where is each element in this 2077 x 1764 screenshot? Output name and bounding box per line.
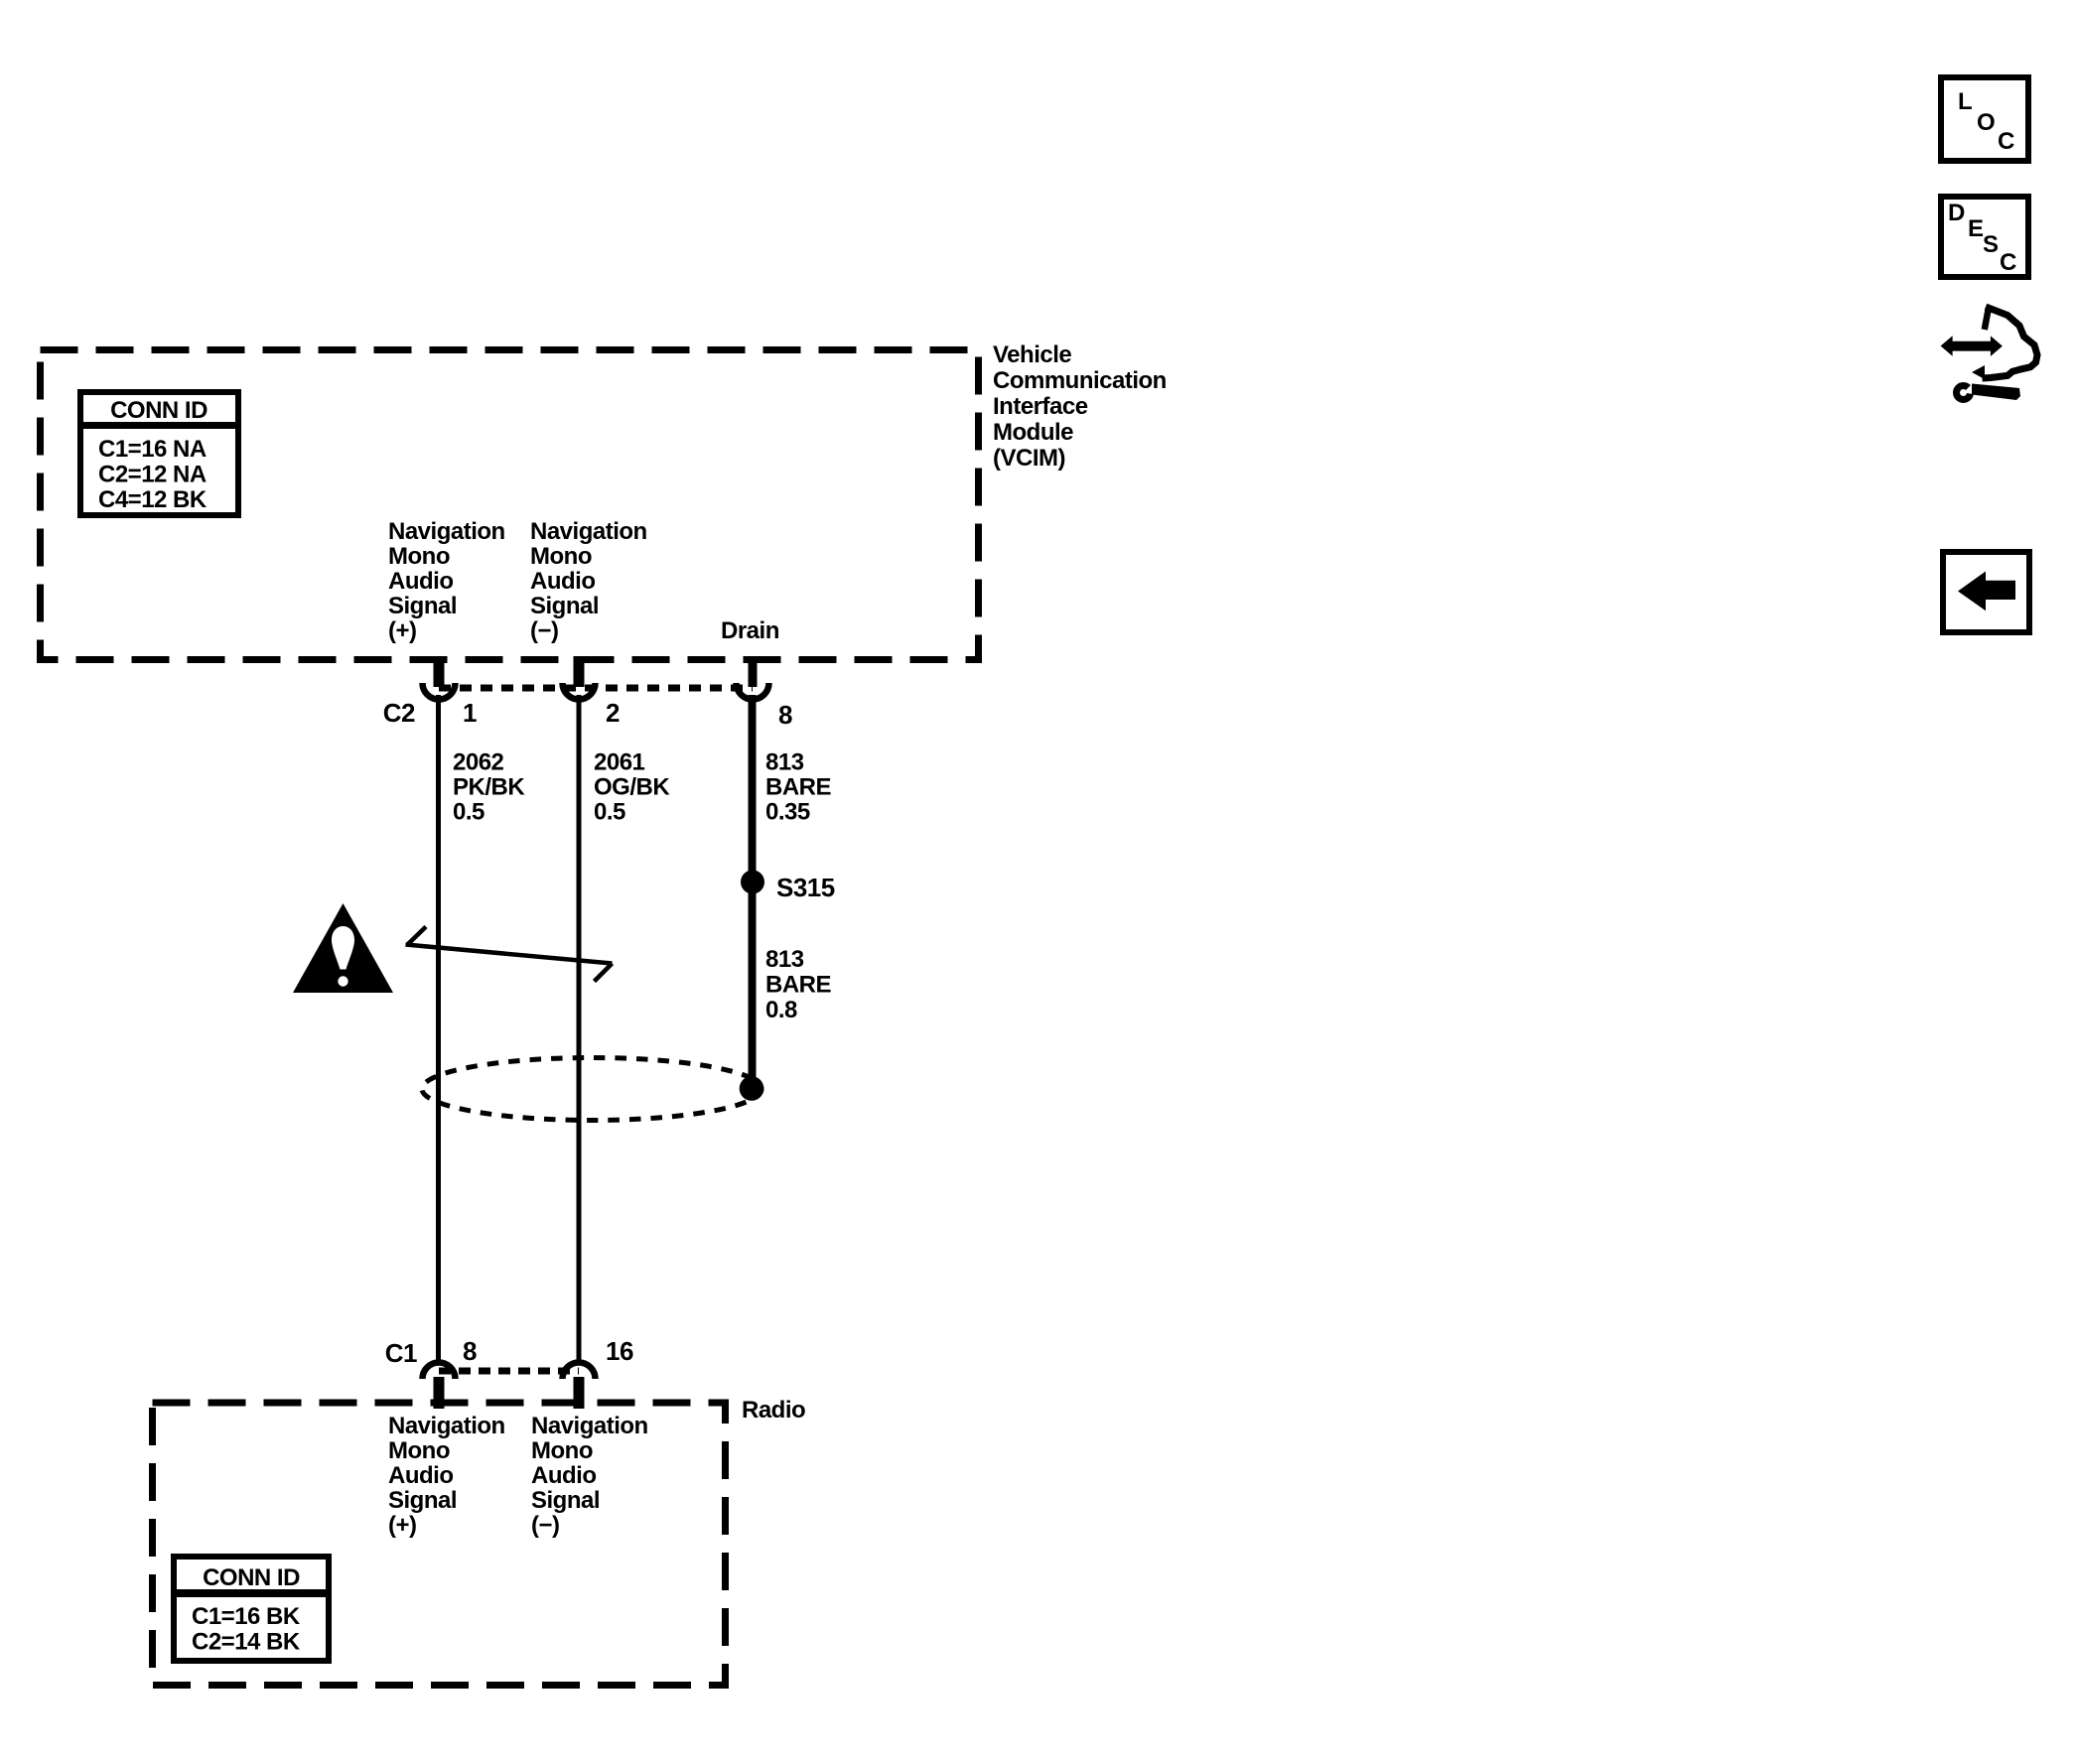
CONN ID table (Radio)	[174, 1557, 329, 1661]
LOC navigation box	[1941, 77, 2028, 161]
svg-text:Audio: Audio	[530, 568, 595, 595]
svg-text:0.35: 0.35	[765, 799, 810, 826]
svg-text:2061: 2061	[594, 749, 645, 776]
svg-text:8: 8	[463, 1336, 477, 1366]
svg-text:C1: C1	[385, 1338, 417, 1368]
loop arrow outline	[1985, 309, 1989, 331]
svg-text:0.5: 0.5	[594, 799, 625, 826]
warning triangle note symbol	[293, 903, 393, 993]
svg-text:O: O	[1977, 109, 1995, 136]
svg-text:Navigation: Navigation	[531, 1413, 648, 1439]
pin label: Navigation Mono Audio Signal (+) (Radio)	[388, 1413, 505, 1539]
svg-text:Interface: Interface	[993, 393, 1088, 420]
svg-text:BARE: BARE	[765, 972, 831, 999]
svg-text:BARE: BARE	[765, 774, 831, 801]
wire 2062 PK/BK 0.5	[436, 695, 441, 1364]
svg-text:PK/BK: PK/BK	[453, 774, 525, 801]
wire label 813 BARE 0.35	[765, 749, 831, 826]
svg-text:E: E	[1968, 215, 1984, 242]
svg-text:Signal: Signal	[531, 1487, 600, 1514]
connector C2 pin 2 stub	[574, 656, 585, 687]
shield junction dot	[740, 1076, 764, 1101]
note pointer arrow	[406, 927, 613, 982]
svg-text:C2=14 BK: C2=14 BK	[192, 1629, 301, 1656]
svg-text:813: 813	[765, 749, 804, 776]
svg-text:Communication: Communication	[993, 367, 1167, 394]
svg-text:0.8: 0.8	[765, 997, 797, 1023]
connector C2 pin 8 stub	[749, 656, 758, 687]
wrench	[1957, 386, 1971, 400]
svg-text:Signal: Signal	[388, 1487, 457, 1514]
svg-text:Audio: Audio	[388, 568, 453, 595]
svg-text:C1=16 BK: C1=16 BK	[192, 1603, 301, 1630]
svg-text:(−): (−)	[530, 617, 559, 644]
DESC navigation box	[1941, 197, 2028, 277]
CONN ID table (VCIM)	[80, 392, 238, 515]
svg-text:Drain: Drain	[721, 617, 779, 644]
svg-text:Mono: Mono	[531, 1437, 593, 1464]
svg-text:S315: S315	[776, 873, 835, 902]
wire 813 BARE 0.35 (drain)	[749, 695, 757, 1089]
svg-text:L: L	[1958, 88, 1972, 115]
svg-text:C2=12 NA: C2=12 NA	[98, 462, 207, 488]
connector C2 pin 1 stub	[434, 656, 445, 687]
svg-text:813: 813	[765, 946, 804, 973]
svg-text:Navigation: Navigation	[530, 518, 647, 545]
connector C1 pin 16 stub	[574, 1377, 585, 1409]
connector C1 pin 8 stub	[434, 1377, 445, 1409]
svg-text:C: C	[2000, 249, 2016, 276]
module box Radio (dashed outline)	[153, 1403, 726, 1686]
svg-text:(VCIM): (VCIM)	[993, 445, 1065, 472]
svg-text:D: D	[1948, 200, 1965, 226]
svg-text:C2: C2	[383, 698, 415, 728]
svg-text:OG/BK: OG/BK	[594, 774, 670, 801]
jump/navigate icon (double arrow, loop arrow, wrench)	[1941, 307, 2037, 400]
connector C2 pin 8 cup	[737, 683, 769, 700]
svg-text:Mono: Mono	[388, 543, 450, 570]
wire label 2061 OG/BK 0.5	[594, 749, 670, 826]
connector C2 pin 2 cup	[563, 683, 596, 700]
svg-text:Mono: Mono	[388, 1437, 450, 1464]
svg-text:Module: Module	[993, 419, 1073, 446]
svg-text:(+): (+)	[388, 1512, 417, 1539]
svg-text:1: 1	[463, 698, 477, 728]
svg-text:Audio: Audio	[388, 1462, 453, 1489]
svg-text:C1=16 NA: C1=16 NA	[98, 436, 207, 463]
svg-text:Signal: Signal	[388, 593, 457, 619]
pin label: Navigation Mono Audio Signal (-) (VCIM)	[530, 518, 647, 644]
pin label: Navigation Mono Audio Signal (+) (VCIM)	[388, 518, 505, 644]
svg-text:2: 2	[606, 698, 620, 728]
svg-text:Mono: Mono	[530, 543, 592, 570]
svg-text:Vehicle: Vehicle	[993, 341, 1071, 368]
svg-text:Audio: Audio	[531, 1462, 596, 1489]
svg-text:Navigation: Navigation	[388, 518, 505, 545]
svg-text:(−): (−)	[531, 1512, 560, 1539]
svg-text:0.5: 0.5	[453, 799, 485, 826]
wire label 2062 PK/BK 0.5	[453, 749, 525, 826]
splice S315	[741, 871, 764, 894]
svg-text:CONN ID: CONN ID	[203, 1564, 300, 1591]
svg-text:Navigation: Navigation	[388, 1413, 505, 1439]
svg-text:C: C	[1998, 128, 2014, 155]
pin label: Navigation Mono Audio Signal (-) (Radio)	[531, 1413, 648, 1539]
connector C2 pin 1 cup	[423, 683, 456, 700]
svg-text:C4=12 BK: C4=12 BK	[98, 486, 208, 513]
connector C1 pin 8 cup	[423, 1363, 456, 1379]
shield ellipse (dashed)	[422, 1058, 762, 1121]
back arrow box	[1943, 552, 2029, 632]
svg-text:2062: 2062	[453, 749, 504, 776]
connector C1 pin 16 cup	[563, 1363, 596, 1379]
svg-text:S: S	[1983, 231, 1999, 258]
module box VCIM (dashed outline)	[41, 350, 979, 660]
connector C2 dashed tie line	[439, 685, 753, 692]
svg-text:Signal: Signal	[530, 593, 599, 619]
svg-text:Radio: Radio	[742, 1397, 805, 1424]
svg-text:(+): (+)	[388, 617, 417, 644]
svg-text:16: 16	[606, 1336, 633, 1366]
VCIM module name label	[993, 341, 1167, 472]
wire 2061 OG/BK 0.5	[577, 695, 582, 1364]
svg-text:CONN ID: CONN ID	[110, 397, 208, 424]
svg-text:8: 8	[778, 700, 792, 730]
double-headed arrow	[1941, 336, 2003, 356]
connector C1 dashed tie line	[439, 1368, 579, 1375]
wire label 813 BARE 0.8	[765, 946, 831, 1023]
